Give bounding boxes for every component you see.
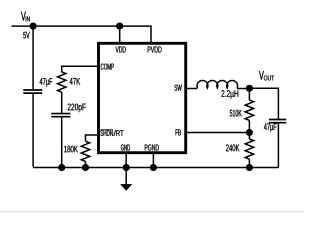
junction: comp network to ground rail dot xyxy=(58,164,65,171)
pin label COMP xyxy=(101,64,114,70)
ground symbol xyxy=(121,168,132,191)
wire: PGND pin stub to ground rail xyxy=(152,153,154,168)
resistor R3 510K xyxy=(230,88,254,132)
capacitor C2 220pF xyxy=(51,104,85,117)
wire: input cap bottom down to ground rail xyxy=(32,94,34,167)
wire: VIN top rail from left edge over to PVDD corner xyxy=(12,26,152,44)
wire: 180K down to ground rail xyxy=(85,162,87,168)
junction: VDD node dot xyxy=(116,23,123,30)
wire: SHDN/RT pin out to 180K xyxy=(86,135,99,141)
wire: SW pin out to inductor xyxy=(185,88,197,90)
pin label VDD xyxy=(116,46,126,52)
capacitor C1 47uF input xyxy=(23,78,52,93)
wire: VDD stub from top rail down to IC xyxy=(119,26,121,44)
junction: 180K to ground rail dot xyxy=(82,164,89,171)
node VIN net label xyxy=(21,12,30,39)
junction: GND to rail dot xyxy=(123,164,130,171)
junction: PGND to rail dot xyxy=(150,164,157,171)
wire: VIN branch down to input cap xyxy=(32,26,34,89)
capacitor C3 47uF output xyxy=(264,120,286,132)
pin label SW xyxy=(174,85,181,91)
rule: faint page divider line xyxy=(0,211,304,213)
resistor R1 47K xyxy=(58,72,81,92)
op-amp U1 regulator body xyxy=(99,43,186,152)
pin label GND xyxy=(121,144,130,150)
wire: 47K down to 220pF xyxy=(61,92,63,113)
wire: FB pin out to divider midpoint xyxy=(185,132,249,134)
junction: VOUT node dot xyxy=(246,85,253,92)
node VOUT net label xyxy=(259,71,274,80)
junction: 240K to ground rail dot xyxy=(246,164,253,171)
junction: FB divider node dot xyxy=(246,129,253,136)
pin label SHDN/RT with overline on SHDN xyxy=(100,130,123,136)
wire: 220pF down to ground rail xyxy=(61,117,63,167)
junction: VIN node dot xyxy=(29,23,36,30)
wire: GND pin stub to ground rail xyxy=(125,153,127,168)
pin label PVDD xyxy=(148,46,162,52)
resistor R2 180K xyxy=(64,141,90,161)
wire: VOUT node right and down to output cap xyxy=(249,88,278,119)
wire: inductor to VOUT node xyxy=(237,88,249,90)
pin label PGND xyxy=(145,144,159,150)
resistor R4 240K xyxy=(226,133,254,168)
pin label FB xyxy=(176,129,181,135)
wire: ground rail xyxy=(33,167,278,169)
inductor L1 2.2uH xyxy=(197,80,238,98)
wire: output cap bottom to ground rail corner xyxy=(277,123,279,167)
wire: COMP pin out to compensation branch xyxy=(62,66,99,72)
